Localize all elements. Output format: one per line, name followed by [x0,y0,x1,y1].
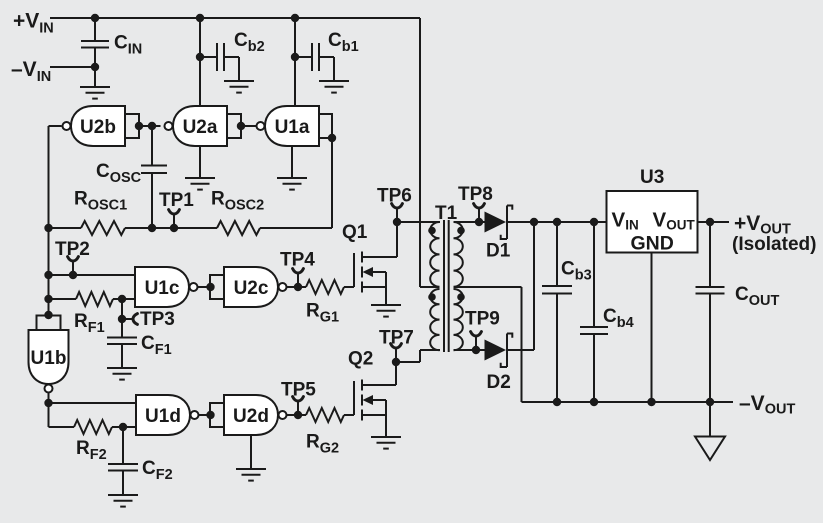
ground stem U1a [291,146,293,178]
junction dot Cb2 tap [196,53,204,61]
junction dot TP4 [294,283,302,291]
capacitor CF2 [122,427,124,464]
capacitor Cb3 [556,222,558,286]
junction node CIN top [91,14,99,22]
junction dot COUT bottom [706,398,714,406]
wire U1b out [48,393,50,403]
junction dot TP1 [170,224,178,232]
wire Q1 drain to T1 [397,221,440,223]
resistor ROSC2 [217,221,260,235]
wire U2c out to RG1 [287,286,306,288]
ground U2d [236,468,266,470]
wire U2d out to RG2 [287,414,306,416]
resistor RF1 [49,298,77,300]
diode D1 [485,212,507,233]
wire node TP1 [152,227,217,229]
wire T1 primary center tap [420,286,440,288]
test point TP9 [475,336,477,350]
junction dot rail x200 [196,14,204,22]
capacitor Cb4 [593,222,595,327]
capacitor Cb2 [200,56,217,58]
svg-text:GND: GND [631,233,674,255]
capacitor CF1 [107,337,137,339]
capacitor COSC [151,126,153,166]
nand gate U2b [71,106,125,146]
input tie bracket U2c [210,275,224,299]
nand gate U1c [135,267,189,307]
junction dot U1d out [206,411,214,419]
svg-text:TP3: TP3 [140,309,175,330]
junction dot U2a tie [237,122,245,130]
svg-text:U2c: U2c [234,278,269,299]
wire RF2 drop [48,403,50,427]
wire +VIN rail [50,17,420,19]
test point TP7 [395,348,397,362]
ground stem U2d [250,435,252,469]
svg-text:D1: D1 [486,241,511,262]
nand gate U1b [29,330,69,384]
wire Cb1 drop [294,18,296,106]
svg-text:U2d: U2d [233,406,269,427]
junction dot COSC top node [148,122,156,130]
svg-text:TP9: TP9 [465,309,500,330]
T1 phase dot primary lower [428,293,436,301]
ground U1a [277,177,307,179]
ground CF2 [108,494,138,496]
test point TP3 [122,318,133,320]
svg-text:(Isolated): (Isolated) [732,234,816,255]
junction dot U1a tie [328,134,336,142]
junction dot RF1/CF1 [118,295,126,303]
ground Q1 [371,304,401,306]
junction dot ROSC1 left [44,224,52,232]
wire D2 cathode up [507,349,534,351]
junction dot U2b tie [135,122,143,130]
junction dot TP3 [118,315,126,323]
nand gate U2c [224,267,278,307]
isolated ground triangle [709,402,711,437]
diode D2 [485,340,507,361]
resistor RG2 [306,408,344,422]
nand gate U2d [224,395,278,435]
svg-text:Q1: Q1 [342,222,368,243]
test point TP5 [297,401,299,415]
regulator U3 box [607,191,698,253]
test point TP4 [297,273,299,287]
junction dot TP2 branch [44,271,52,279]
ground Cb2 [224,80,254,82]
junction node -VIN/CIN [91,63,99,71]
input tie bracket U1a [319,114,332,138]
junction dot U1b tie [44,311,52,319]
svg-text:TP8: TP8 [458,184,493,205]
ground U2a [185,177,215,179]
T1 phase dot secondary upper [457,227,465,235]
svg-text:U3: U3 [640,167,664,188]
nand gate U2a [173,106,227,146]
wire Cb2 drop [199,18,201,106]
ground CF1 [107,367,137,369]
T1 secondary lower winding [454,289,463,350]
T1 secondary upper winding [454,222,463,287]
junction dot TP7 [392,358,400,366]
svg-text:TP2: TP2 [55,239,90,260]
junction dot D2 join [530,218,538,226]
wire TP2 row [49,274,136,276]
svg-text:U2b: U2b [80,117,116,138]
svg-text:U2a: U2a [183,117,218,138]
nand gate U1a [265,106,319,146]
svg-text:Q2: Q2 [348,349,373,370]
resistor RG1 [306,280,344,294]
junction dot TP9 [472,346,480,354]
transistor Q1 [353,253,355,287]
test point TP6 [396,208,398,222]
svg-text:U1d: U1d [145,406,181,427]
wire T1 secondary top to D1 [454,221,485,223]
T1 primary lower winding [430,289,439,350]
svg-text:U1c: U1c [145,278,180,299]
junction dot TP5 [294,411,302,419]
wire T1 secondary center tap [454,286,522,288]
T1 core [443,220,445,352]
wire Q2 drain to T1 [396,361,420,363]
capacitor CIN [94,18,96,41]
wire U2b input node [139,125,161,127]
junction dot TP8 [475,218,483,226]
input tie bracket U2a [227,114,241,138]
wire U1d out [199,414,210,416]
test point TP1 [173,214,175,228]
T1 phase dot secondary lower [457,293,465,301]
ground CIN [80,86,110,88]
junction dot Cb3 bottom [553,398,561,406]
transistor Q2 [353,381,355,415]
wire U2b output to left bus [49,125,62,127]
junction dot Cb1 tap [291,53,299,61]
T1 phase dot primary upper [428,227,436,235]
ground Q2 [371,436,401,438]
junction dot U1b out [44,399,52,407]
svg-text:U1a: U1a [275,117,310,138]
junction dot Cb4 bottom [590,398,598,406]
wire top rail drop to T1 center tap [419,18,421,287]
junction dot COSC bottom [148,224,156,232]
wire CF1 drop [121,299,123,338]
junction dot TP2 [69,271,77,279]
junction dot U3 GND [647,398,655,406]
resistor RF2 [49,426,75,428]
junction dot TP6 [393,218,401,226]
test point TP2 [72,261,74,275]
input tie bracket U2b [125,114,139,138]
wire -VIN lead [50,66,95,68]
wire D1 cathode to U3 [507,221,607,223]
ground stem U2a [199,146,201,178]
svg-text:TP4: TP4 [280,250,315,271]
junction dot RF1 branch [44,295,52,303]
wire ROSC2 to U1a input [260,227,332,229]
input tie bracket U2d [210,403,224,427]
junction dot rail x295 [291,14,299,22]
nand gate U1d [136,395,190,435]
junction dot U1c out [206,283,214,291]
resistor ROSC1 [49,227,82,229]
capacitor Cb1 [295,56,312,58]
input tie bracket U1b [37,316,61,331]
svg-text:D2: D2 [487,372,511,393]
svg-text:T1: T1 [435,203,458,224]
wire U3 GND pin [651,253,653,403]
junction dot RF2/CF2 [119,423,127,431]
svg-text:U1b: U1b [31,348,67,369]
svg-text:TP1: TP1 [159,190,194,211]
capacitor COUT [709,222,711,287]
junction dot +VOUT node [706,218,714,226]
wire left bus vertical [48,126,50,315]
wire U2a input node [241,125,256,127]
test point TP8 [478,208,480,222]
ground Cb1 [319,80,349,82]
T1 primary upper winding [430,222,439,287]
junction dot Cb3 top [553,218,561,226]
wire U1d top row [49,402,137,404]
junction dot Cb4 top [590,218,598,226]
wire U3 VOUT to +VOUT [698,221,730,223]
svg-text:TP6: TP6 [377,186,412,207]
wire T1 secondary bottom to D2 [454,349,485,351]
svg-text:TP7: TP7 [379,328,414,349]
wire U1c out [198,286,210,288]
svg-text:TP5: TP5 [281,380,316,401]
wire -VOUT rail [522,401,734,403]
